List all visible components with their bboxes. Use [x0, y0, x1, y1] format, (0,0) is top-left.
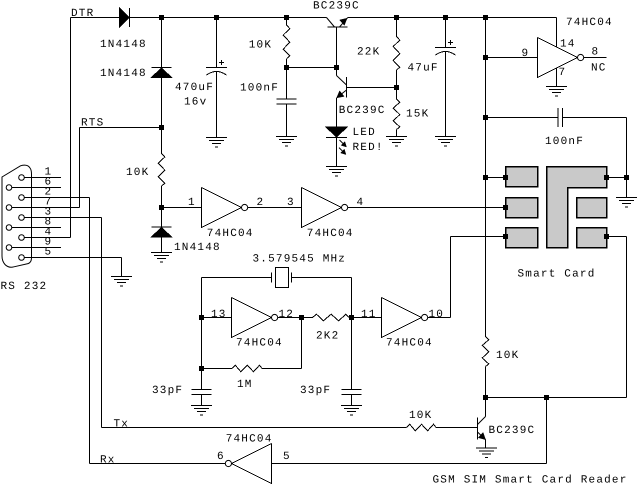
svg-text:100nF: 100nF — [240, 83, 279, 95]
svg-text:LED: LED — [353, 127, 376, 139]
svg-text:22K: 22K — [357, 47, 380, 59]
svg-text:1N4148: 1N4148 — [100, 68, 147, 80]
svg-text:74HC04: 74HC04 — [207, 228, 254, 240]
svg-text:74HC04: 74HC04 — [566, 17, 613, 29]
svg-text:100nF: 100nF — [545, 136, 584, 148]
svg-text:1N4148: 1N4148 — [100, 39, 147, 51]
svg-text:6: 6 — [217, 451, 225, 463]
svg-text:2: 2 — [257, 197, 265, 209]
svg-text:33pF: 33pF — [300, 385, 331, 397]
svg-text:BC239C: BC239C — [339, 105, 386, 117]
svg-text:Tx: Tx — [114, 419, 130, 431]
svg-text:NC: NC — [591, 63, 607, 75]
svg-text:11: 11 — [361, 309, 377, 321]
svg-text:10K: 10K — [126, 167, 149, 179]
svg-text:5: 5 — [45, 247, 53, 259]
svg-text:74HC04: 74HC04 — [386, 338, 433, 350]
svg-text:74HC04: 74HC04 — [236, 338, 283, 350]
svg-text:8: 8 — [592, 47, 600, 59]
svg-text:1M: 1M — [237, 379, 253, 391]
svg-text:15K: 15K — [406, 109, 429, 121]
svg-text:RED!: RED! — [353, 142, 384, 154]
svg-text:BC239C: BC239C — [313, 1, 360, 13]
svg-text:74HC04: 74HC04 — [226, 434, 273, 446]
svg-text:1N4148: 1N4148 — [174, 242, 221, 254]
svg-text:12: 12 — [279, 309, 295, 321]
svg-text:10: 10 — [429, 309, 445, 321]
svg-text:14: 14 — [560, 39, 576, 51]
svg-text:47uF: 47uF — [408, 63, 439, 75]
svg-text:RTS: RTS — [81, 118, 104, 130]
svg-text:7: 7 — [559, 67, 567, 79]
svg-text:RS 232: RS 232 — [1, 281, 48, 293]
svg-text:2K2: 2K2 — [316, 331, 339, 343]
svg-text:3.579545 MHz: 3.579545 MHz — [253, 254, 347, 266]
svg-text:10K: 10K — [409, 410, 432, 422]
svg-text:DTR: DTR — [71, 8, 94, 20]
svg-text:1: 1 — [188, 197, 196, 209]
svg-text:3: 3 — [287, 197, 295, 209]
svg-text:33pF: 33pF — [152, 385, 183, 397]
svg-text:10K: 10K — [249, 40, 272, 52]
svg-text:Rx: Rx — [100, 455, 116, 467]
svg-text:470uF: 470uF — [175, 82, 214, 94]
svg-text:4: 4 — [357, 197, 365, 209]
svg-text:GSM SIM Smart Card Reader: GSM SIM Smart Card Reader — [433, 475, 628, 485]
svg-text:10K: 10K — [496, 350, 519, 362]
svg-text:16v: 16v — [184, 97, 207, 109]
svg-text:5: 5 — [283, 451, 291, 463]
svg-text:9: 9 — [522, 48, 530, 60]
svg-text:74HC04: 74HC04 — [307, 228, 354, 240]
svg-text:13: 13 — [211, 309, 227, 321]
svg-text:BC239C: BC239C — [489, 425, 536, 437]
svg-text:Smart Card: Smart Card — [518, 269, 596, 281]
